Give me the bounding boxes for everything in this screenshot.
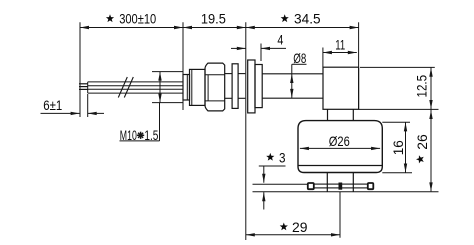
svg-text:19.5: 19.5 — [201, 11, 226, 27]
svg-text:34.5: 34.5 — [294, 11, 321, 27]
svg-text:26: 26 — [414, 134, 430, 150]
svg-text:29: 29 — [292, 219, 308, 235]
svg-text:Ø8: Ø8 — [293, 50, 306, 66]
svg-text:6±1: 6±1 — [43, 97, 62, 113]
svg-text:Ø26: Ø26 — [329, 133, 350, 149]
svg-text:1.5: 1.5 — [144, 127, 158, 143]
svg-text:12.5: 12.5 — [413, 75, 429, 98]
svg-text:300±10: 300±10 — [119, 11, 156, 27]
svg-text:11: 11 — [335, 37, 345, 53]
svg-text:3: 3 — [279, 149, 286, 165]
svg-text:16: 16 — [390, 140, 406, 155]
svg-text:4: 4 — [277, 31, 283, 47]
svg-text:M10: M10 — [120, 127, 137, 143]
